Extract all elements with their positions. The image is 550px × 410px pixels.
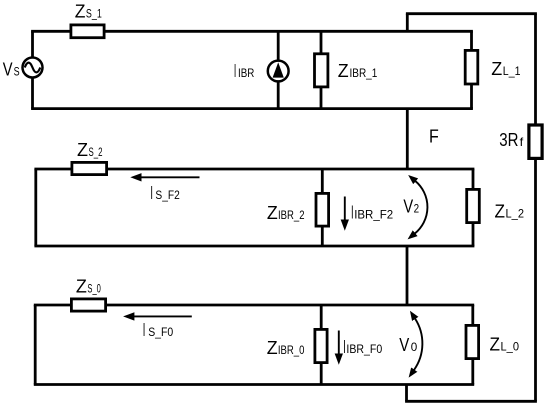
svg-text:IBR_2: IBR_2 (278, 208, 305, 222)
resistor Z_IBR_2 (316, 193, 329, 226)
svg-text:Z: Z (495, 202, 506, 222)
wire: Z_IBR_1 branch vertical (320, 31, 323, 108)
svg-text:V: V (399, 335, 410, 355)
svg-text:S_F2: S_F2 (155, 188, 180, 202)
svg-text:S_F0: S_F0 (148, 325, 173, 339)
wire: net2 bottom horizontal (34, 245, 474, 248)
svg-text:IBR_F0: IBR_F0 (346, 342, 382, 356)
wire: net2 left vertical (34, 169, 37, 246)
svg-text:V: V (3, 60, 13, 80)
svg-text:Z: Z (491, 59, 502, 79)
resistor ZS_2 (72, 162, 107, 174)
svg-text:I: I (143, 320, 146, 340)
wire: net0 left vertical (34, 305, 37, 385)
svg-text:I: I (234, 61, 236, 81)
svg-text:L_0: L_0 (501, 340, 520, 354)
svg-text:2: 2 (414, 201, 420, 215)
wire: I_IBR branch vertical (277, 31, 280, 108)
resistor Z_IBR_1 (315, 54, 328, 87)
svg-text:Z: Z (77, 140, 88, 160)
wire: net1 top horizontal (31, 30, 473, 33)
svg-text:Z: Z (490, 335, 501, 355)
wire: Z_IBR_2 branch vertical (321, 169, 324, 246)
resistor Z_L_0 (466, 325, 479, 358)
wire: stub from net0 bottom down to return bus (405, 385, 408, 402)
resistor Z_L_1 (465, 50, 478, 84)
arrow I_S_F2 (141, 176, 200, 178)
arrow I_IBR_F2 (down) (344, 197, 346, 221)
svg-text:Z: Z (267, 203, 278, 223)
wire: F line between net1 and net2 (406, 109, 409, 169)
svg-text:S_1: S_1 (86, 7, 102, 21)
svg-text:F: F (429, 126, 439, 146)
svg-text:L_1: L_1 (503, 64, 521, 78)
wire: net0 bottom horizontal (34, 383, 474, 386)
current source I_IBR (268, 61, 289, 82)
wire: right riser vertical (through 3Rf) (534, 14, 537, 402)
svg-text:IBR: IBR (238, 66, 255, 80)
svg-text:IBR_0: IBR_0 (278, 343, 305, 357)
wire: net1 left vertical (31, 31, 34, 108)
resistor ZS_0 (71, 299, 105, 311)
wire: Z_L_0 branch vertical (471, 305, 474, 385)
arrow arc V2 (415, 181, 428, 234)
svg-text:I: I (150, 183, 153, 203)
resistor ZS_1 (71, 25, 104, 38)
wire: Z_L_1 branch vertical (470, 31, 473, 108)
svg-text:Z: Z (76, 277, 87, 297)
wire: line between net2 and net0 (406, 246, 409, 305)
resistor Z_L_2 (467, 189, 480, 222)
svg-text:3R: 3R (499, 130, 518, 150)
wire: net1 bottom horizontal (31, 107, 473, 110)
svg-text:IBR_F2: IBR_F2 (354, 207, 393, 221)
svg-text:S: S (14, 65, 20, 79)
arrow arc V0 (414, 319, 422, 371)
svg-text:L_2: L_2 (506, 207, 525, 221)
wire: Z_L_2 branch vertical (472, 169, 475, 246)
wire: top connector horizontal (406, 12, 537, 15)
voltage source VS (23, 58, 43, 78)
svg-text:S_0: S_0 (87, 282, 101, 296)
resistor Z_IBR_0 (315, 329, 327, 362)
svg-text:0: 0 (411, 340, 418, 354)
svg-text:Z: Z (75, 2, 86, 22)
wire: bottom return horizontal (405, 400, 537, 403)
svg-text:V: V (403, 196, 413, 216)
wire: net0 top horizontal (34, 304, 474, 307)
resistor 3Rf (529, 125, 542, 158)
svg-text:IBR_1: IBR_1 (350, 66, 378, 80)
wire: Z_IBR_0 branch vertical (320, 305, 323, 385)
svg-text:Z: Z (267, 338, 278, 358)
wire: net2 top horizontal (34, 168, 474, 171)
wire: stub from net1 top to fault bus (406, 14, 409, 32)
svg-text:Z: Z (338, 61, 349, 81)
arrow I_S_F0 (134, 315, 192, 317)
arrow I_IBR_F0 (down) (338, 331, 340, 355)
svg-text:S_2: S_2 (89, 145, 103, 159)
